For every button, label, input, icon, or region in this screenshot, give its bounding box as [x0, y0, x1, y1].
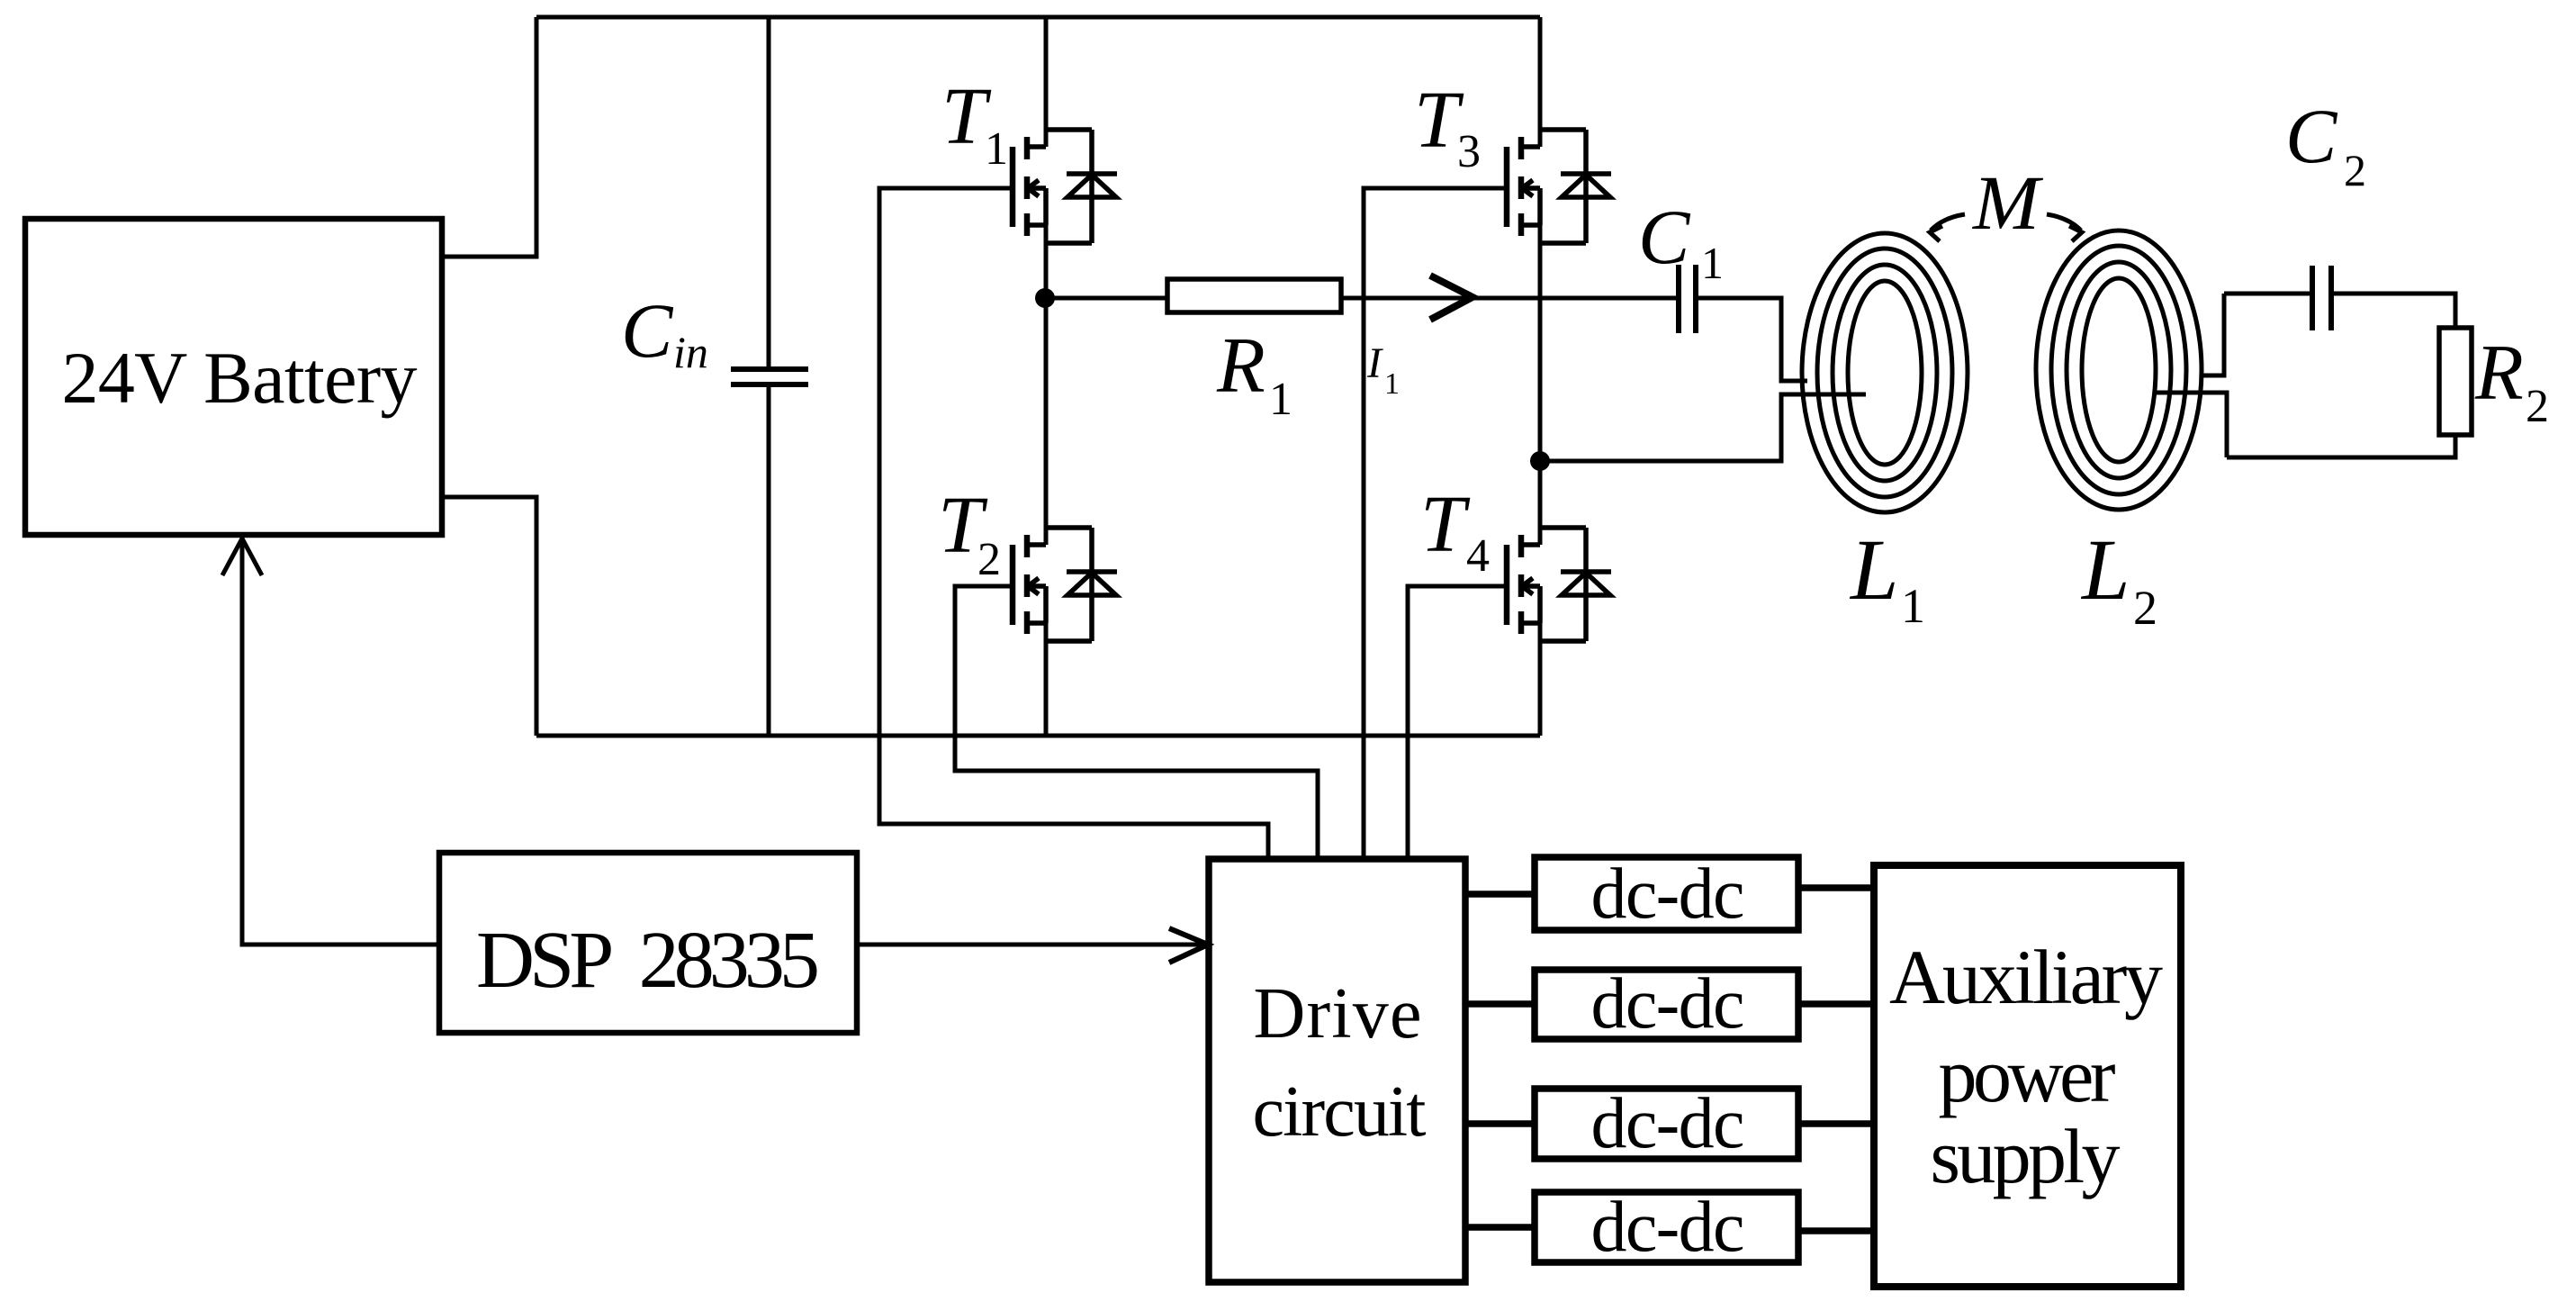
svg-text:R: R — [1216, 322, 1265, 410]
svg-text:C: C — [621, 287, 674, 374]
wire bottom rail — [536, 734, 1540, 738]
svg-text:3: 3 — [1457, 126, 1481, 177]
auxiliary power supply box — [1874, 865, 2181, 1287]
svg-text:1: 1 — [1269, 374, 1293, 425]
transistor T3 — [1507, 130, 1611, 243]
wire T4 gate — [1408, 586, 1507, 859]
dc-dc converter 4 — [1535, 1188, 1798, 1267]
svg-text:2: 2 — [2526, 381, 2549, 432]
svg-text:dc-dc: dc-dc — [1591, 964, 1745, 1044]
svg-text:2: 2 — [977, 534, 1001, 585]
arrow DSP to drive circuit — [857, 928, 1208, 963]
wire T3 drain — [1538, 17, 1543, 147]
wire L2 inner lead to loop bottom — [2153, 393, 2227, 457]
svg-text:dc-dc: dc-dc — [1591, 1188, 1745, 1267]
svg-text:DSP 28335: DSP 28335 — [476, 916, 820, 1005]
svg-text:T: T — [1420, 480, 1471, 569]
wire T3 gate — [1364, 188, 1507, 859]
node B junction dot — [1530, 451, 1550, 471]
svg-text:Auxiliary: Auxiliary — [1889, 934, 2163, 1020]
mutual inductance M — [1971, 159, 2044, 246]
svg-text:1: 1 — [1701, 238, 1724, 288]
svg-text:power: power — [1939, 1032, 2116, 1118]
svg-text:L: L — [2080, 521, 2130, 618]
svg-text:1: 1 — [1901, 579, 1925, 633]
capacitor Cin — [731, 17, 808, 736]
svg-text:1: 1 — [985, 123, 1008, 175]
wire T1 drain — [1044, 17, 1049, 147]
svg-text:I: I — [1366, 339, 1383, 387]
drive circuit box — [1209, 859, 1465, 1282]
wire L2 outer to loop top — [2202, 294, 2224, 375]
transistor T1 — [1013, 130, 1117, 243]
current arrow I1 — [1430, 276, 1473, 320]
transistor T4 — [1507, 528, 1611, 641]
wire dc-dc 3 to auxiliary — [1798, 1120, 1874, 1127]
dc-dc converter 1 — [1535, 854, 1798, 934]
wire battery minus — [442, 497, 536, 736]
svg-text:circuit: circuit — [1253, 1072, 1427, 1152]
wire T4 source — [1538, 623, 1543, 736]
svg-text:L: L — [1849, 521, 1898, 618]
svg-text:R: R — [2474, 330, 2524, 417]
wire battery plus — [442, 17, 536, 257]
wire L1 inner lead to node B — [1540, 394, 1866, 461]
wire drive to dc-dc 1 — [1465, 891, 1535, 898]
wire C1 to L1 outer — [1696, 298, 1807, 381]
wire node A to R1 — [1045, 296, 1167, 301]
svg-text:M: M — [1971, 159, 2044, 246]
svg-text:dc-dc: dc-dc — [1591, 854, 1745, 934]
battery 24V — [25, 219, 442, 535]
svg-text:supply: supply — [1931, 1113, 2121, 1199]
wire drive to dc-dc 2 — [1465, 1000, 1535, 1008]
transistor T2 — [1013, 528, 1117, 641]
svg-text:24V Battery: 24V Battery — [62, 337, 418, 419]
wire secondary loop bottom — [2227, 435, 2455, 457]
svg-text:1: 1 — [1384, 367, 1400, 401]
svg-text:2: 2 — [2133, 581, 2157, 635]
capacitor C1 — [1679, 265, 1696, 333]
inductor L2 — [2036, 231, 2202, 510]
svg-text:Drive: Drive — [1254, 974, 1422, 1053]
wire R1 to C1 — [1341, 296, 1678, 301]
capacitor C2 — [2312, 266, 2331, 330]
inductor L1 — [1802, 233, 1968, 512]
dc-dc converter 2 — [1535, 964, 1798, 1044]
wire drive to dc-dc 3 — [1465, 1120, 1535, 1127]
wire T2 gate — [955, 586, 1318, 859]
DSP 28335 box — [439, 853, 857, 1033]
wire drive to dc-dc 4 — [1465, 1224, 1535, 1231]
wire T3 source to T4 drain — [1538, 225, 1543, 545]
resistor R2 — [2439, 328, 2549, 435]
wire T1 source to T2 drain — [1044, 225, 1049, 545]
wire top rail — [536, 15, 1540, 20]
dc-dc converter 3 — [1535, 1084, 1798, 1163]
svg-text:in: in — [673, 327, 708, 377]
wire T1 gate — [879, 188, 1268, 859]
svg-text:dc-dc: dc-dc — [1591, 1084, 1745, 1163]
svg-text:4: 4 — [1466, 530, 1490, 582]
arrow DSP to battery — [222, 538, 439, 945]
wire secondary loop top left — [2224, 292, 2312, 296]
wire secondary loop top right — [2331, 294, 2455, 328]
M arrow left — [1930, 214, 1965, 241]
svg-text:C: C — [1638, 194, 1691, 280]
svg-text:C: C — [2285, 93, 2338, 179]
resistor R1 — [1167, 279, 1341, 425]
svg-text:2: 2 — [2344, 145, 2366, 195]
wire dc-dc 1 to auxiliary — [1798, 884, 1874, 891]
wire dc-dc 4 to auxiliary — [1798, 1227, 1874, 1234]
wire T2 source — [1044, 623, 1049, 736]
node A junction dot — [1035, 288, 1055, 308]
M arrow right — [2047, 214, 2082, 241]
wire dc-dc 2 to auxiliary — [1798, 1000, 1874, 1008]
